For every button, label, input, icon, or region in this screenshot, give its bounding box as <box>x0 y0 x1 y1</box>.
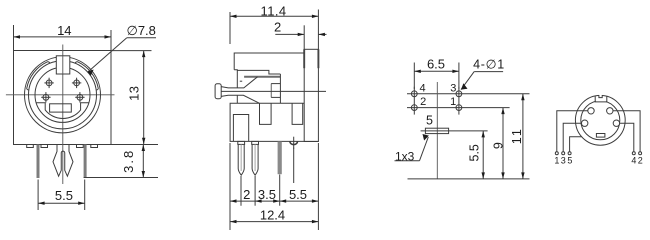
pin C (solid gray) <box>278 141 282 174</box>
svg-text:4-∅1: 4-∅1 <box>473 57 505 71</box>
svg-text:5.5: 5.5 <box>467 144 481 161</box>
mount stub c <box>77 145 84 148</box>
pin 3 (upper-right) <box>72 78 81 88</box>
schematic pin 1 (mid-left) <box>582 120 588 126</box>
dimension 12.4 <box>230 220 318 223</box>
right pin leg (gray) <box>84 145 87 179</box>
pin 4 (upper-left) <box>44 78 53 88</box>
centerline vertical <box>62 45 64 185</box>
wire 4 <box>620 123 634 151</box>
peg section (ellipse) <box>290 137 298 149</box>
terminal 4 <box>632 152 635 155</box>
dimension 14 (top) <box>14 25 112 51</box>
svg-text:5: 5 <box>567 156 572 166</box>
contact block <box>271 74 280 103</box>
svg-text:4: 4 <box>420 82 426 94</box>
outer shield circle <box>25 57 101 133</box>
svg-text:11: 11 <box>510 127 524 144</box>
upper body outline <box>234 53 304 70</box>
bottom dim extension lines <box>230 143 318 230</box>
cutout notch 1 <box>260 103 272 124</box>
body square <box>14 51 112 145</box>
dimension 11.4 (top) <box>230 10 318 50</box>
wire 2 <box>613 111 640 152</box>
terminal 3 <box>562 152 565 155</box>
slot mid line <box>421 130 488 132</box>
arm middle line <box>221 90 326 92</box>
svg-text:∅7.8: ∅7.8 <box>127 23 156 38</box>
svg-text:5.5: 5.5 <box>55 188 73 203</box>
bottom slot <box>596 134 605 138</box>
shield slot (1x3) <box>425 128 448 133</box>
svg-text:1: 1 <box>554 156 559 166</box>
shield inner circle <box>29 61 97 129</box>
terminal 1 <box>555 152 558 155</box>
cutout notch 2 <box>292 103 303 124</box>
pin B (with collar) <box>252 141 259 175</box>
face circle <box>35 67 90 122</box>
latch arm top <box>221 77 257 88</box>
hole 3 <box>456 91 462 97</box>
left pin leg (gray) <box>37 145 40 179</box>
mount stub d <box>91 145 98 148</box>
schematic pin 4 (top-right) <box>607 108 613 114</box>
svg-text:3.5: 3.5 <box>258 187 276 202</box>
svg-text:13: 13 <box>126 85 141 100</box>
terminal 5 <box>568 152 571 155</box>
shield slot cap lines <box>27 62 99 90</box>
inner circle <box>581 101 620 140</box>
dimension 5.5 (vertical) <box>482 131 485 179</box>
upper-left step <box>234 70 237 88</box>
pcb baseline <box>408 178 530 180</box>
svg-text:2: 2 <box>274 20 281 35</box>
svg-text:6.5: 6.5 <box>427 57 445 72</box>
outer shield circle <box>575 95 625 145</box>
svg-text:9: 9 <box>491 142 505 149</box>
centerline horizontal <box>6 94 115 96</box>
svg-text:12.4: 12.4 <box>260 207 285 222</box>
dimension 11 (vertical) <box>521 94 524 179</box>
svg-text:4: 4 <box>631 156 636 166</box>
schematic pin 2 (mid-right) <box>613 120 619 126</box>
inner rectangle <box>233 115 248 142</box>
svg-text:2: 2 <box>638 156 643 166</box>
wire 3 <box>563 123 581 151</box>
terminal 2 <box>639 152 642 155</box>
centerline through notch <box>62 56 64 74</box>
svg-text:5.5: 5.5 <box>289 187 307 202</box>
dimension 13 (right of front view) <box>111 51 152 145</box>
dimension 6.5 <box>414 63 459 90</box>
bottom inset shape <box>36 103 89 119</box>
svg-text:1: 1 <box>450 96 456 108</box>
pin 2 (lower-left) <box>41 92 50 102</box>
left edge below arm <box>236 95 238 103</box>
svg-text:2: 2 <box>243 187 250 202</box>
dimension 2 (flange) <box>275 25 326 49</box>
mount stub a <box>27 145 34 148</box>
flange thick edge left <box>303 49 305 68</box>
latch paddle <box>215 84 221 99</box>
flange plate <box>304 49 318 141</box>
mount stub b <box>41 145 48 148</box>
pin A (with collar) <box>238 141 245 175</box>
svg-text:2: 2 <box>420 96 426 108</box>
lower body <box>230 103 318 141</box>
flange thick edge right <box>317 49 319 68</box>
latch housing top <box>237 70 280 74</box>
key notch <box>595 94 607 102</box>
wire 5 <box>570 137 582 152</box>
hole 1 <box>456 105 462 111</box>
dimension 5.5 (front bottom) <box>38 180 85 211</box>
pin 1 (lower-right) <box>75 92 84 102</box>
hole row lines <box>407 93 530 95</box>
hole 2 <box>411 105 417 111</box>
dimension row 2 / 3.5 / 5.5 <box>230 199 318 202</box>
svg-text:14: 14 <box>57 23 71 38</box>
key notch (top) <box>56 56 70 74</box>
svg-text:5: 5 <box>426 114 433 128</box>
dimension 9 (vertical) <box>501 108 504 179</box>
latch arm bottom <box>221 95 259 103</box>
dimension 3.8 <box>84 145 158 178</box>
schematic pin 3 (top-left) <box>588 108 594 114</box>
layout centerline <box>436 82 438 179</box>
bottom rectangular hole <box>50 104 72 112</box>
hidden dash <box>240 80 242 82</box>
wire 1 <box>557 111 588 152</box>
svg-text:3: 3 <box>450 82 456 94</box>
snap-in fork peg <box>53 145 73 177</box>
hole 4 <box>411 91 417 97</box>
svg-text:3: 3 <box>561 156 566 166</box>
latch spring top (thick) <box>244 76 280 78</box>
svg-text:3.8: 3.8 <box>121 149 136 173</box>
svg-text:11.4: 11.4 <box>261 4 287 19</box>
hole column lines <box>413 87 415 115</box>
